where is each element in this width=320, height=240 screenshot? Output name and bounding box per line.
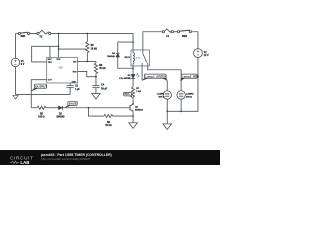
footer bar [0, 150, 220, 165]
wire: OUT pin to left [31, 80, 46, 108]
wire: RST branch horizontal [32, 46, 59, 62]
svg-text:1N4148: 1N4148 [56, 116, 65, 119]
node: emitter/pulldown junction [132, 115, 134, 117]
svg-text:12 V: 12 V [204, 54, 209, 57]
wire: lamp1 top [166, 81, 168, 91]
node: junction on VDD drop [58, 46, 60, 48]
wire: top rail middle segment [51, 32, 133, 34]
switch SW1 closed [18, 32, 29, 34]
svg-text:http://circuitlab.com/c/7aa8y4: http://circuitlab.com/c/7aa8y43b5f2f [41, 157, 90, 161]
wire: lamp1 bottom [166, 99, 168, 111]
wire: D2 to base [63, 107, 130, 109]
svg-text:100 Ω: 100 Ω [38, 117, 44, 119]
wire: second IC top pin drop [49, 46, 51, 57]
wire: DIS pin to R6/R8 junction [77, 60, 96, 62]
svg-text:LAMP1: LAMP1 [157, 93, 165, 96]
diode D4 flyback [116, 53, 120, 57]
node: junction on VDD drop 2 [58, 48, 60, 50]
wire: OUTPUT chain bottom [31, 107, 37, 109]
svg-text:100 Ω: 100 Ω [186, 97, 192, 99]
relay RLY1 [131, 50, 150, 66]
svg-text:50 µF: 50 µF [101, 88, 108, 90]
wire: rail between SW1 and F2 [30, 32, 37, 34]
wire: pulldown to emitter node [113, 115, 133, 117]
op-amp 555 timer IC U1 [47, 57, 78, 83]
node: lamp2 rail junction [180, 111, 182, 113]
ground: V1 ground small [13, 95, 18, 99]
wire: ground line horizontal [15, 93, 70, 95]
switch F2 [37, 30, 51, 34]
wire: emitter down [132, 111, 134, 122]
node: R6 bottom junction [87, 61, 89, 63]
svg-text:VDD: VDD [56, 59, 61, 61]
node: relay coil- / LED junction [132, 67, 134, 69]
resistor R6 [86, 33, 89, 61]
wire: coil- stub [132, 66, 134, 74]
ground: C4 ground [92, 93, 101, 99]
svg-text:GND: GND [72, 81, 77, 83]
resistor R9 pulldown [104, 114, 113, 117]
node: lamp1 rail junction [166, 111, 168, 113]
wire: V2 bottom down to lamp rail [167, 57, 198, 111]
svg-text:SW1: SW1 [20, 36, 26, 38]
wire: relay throw2 to lamp2 [148, 66, 181, 91]
svg-text:LTL-307EE: LTL-307EE [119, 78, 131, 80]
svg-text:10 kΩ: 10 kΩ [91, 48, 97, 50]
wire: lamp2 bottom [180, 99, 182, 111]
svg-text:1N4148: 1N4148 [107, 55, 115, 58]
wire: LED to R7 [132, 78, 134, 87]
transistor Q1 [130, 104, 133, 112]
resistor R8 [94, 61, 97, 85]
capacitor C4 [92, 86, 99, 93]
svg-text:1 µF: 1 µF [75, 89, 80, 91]
wire: V1 bottom to ground line [14, 67, 16, 95]
wire: relay throw1 down [141, 66, 143, 80]
svg-text:SW2: SW2 [182, 35, 188, 38]
svg-text:9 V: 9 V [21, 63, 25, 66]
footer logo LAB [10, 161, 20, 163]
ground: lamp ground [163, 124, 172, 130]
svg-text:Lamp1_GREEN: Lamp1_GREEN [145, 75, 166, 79]
wire: pulldown branch [88, 108, 103, 116]
voltage source V1 [11, 58, 19, 66]
wire: branch to R6 body [59, 48, 87, 50]
wire: flyback top [118, 41, 133, 43]
flag: base net flag [65, 101, 77, 107]
svg-text:OUTPUT: OUTPUT [35, 84, 47, 88]
svg-text:10 kΩ: 10 kΩ [99, 68, 105, 70]
svg-text:2N3904: 2N3904 [135, 108, 143, 111]
svg-text:Lamp2_RED: Lamp2_RED [182, 75, 199, 79]
wire: flyback left vertical top [117, 42, 119, 53]
wire: IC VDD pin drop from rail [58, 33, 60, 57]
svg-text:10 kΩ: 10 kΩ [105, 125, 111, 127]
node: rail junction to R6 [87, 33, 89, 35]
wire: V1 top rail vertical [14, 33, 16, 58]
wire: lamp rail ground drop [166, 111, 168, 123]
svg-text:REL: REL [125, 92, 131, 96]
svg-text:TRG: TRG [48, 62, 53, 64]
wire: THR pin jog [77, 71, 96, 76]
lamp LAMP1 [163, 91, 171, 99]
flag: OUTPUT net flag [31, 84, 47, 91]
flag: collector net flag [124, 92, 133, 98]
svg-text:1 kΩ: 1 kΩ [136, 91, 141, 93]
wire: R5 to D2 [46, 107, 58, 109]
voltage source V2 [194, 49, 203, 58]
switch SW2 closed [177, 30, 191, 33]
node: rail junction to IC pins [58, 33, 60, 35]
wire: rail corner down to relay coil [132, 33, 134, 50]
capacitor C2 [67, 86, 74, 95]
wire: relay common up and right line [143, 32, 162, 50]
svg-text:LAMP2: LAMP2 [186, 93, 194, 96]
resistor R7 [131, 87, 134, 97]
node: collector junction [132, 103, 134, 105]
wire: R7 to collector [132, 97, 134, 104]
flag: Lamp2_RED [180, 74, 199, 81]
svg-text:jasmil43 : Part 1/555 TIMER (C: jasmil43 : Part 1/555 TIMER (CONTROLLER) [40, 153, 112, 157]
ground: emitter ground [129, 123, 138, 129]
LED D1 [131, 74, 139, 79]
resistor R5 [37, 106, 46, 109]
svg-text:THR: THR [72, 71, 77, 73]
wire: F1 to SW2 [174, 31, 178, 33]
wire: SW2 to V2 [191, 32, 198, 49]
svg-text:555: 555 [58, 66, 63, 70]
svg-text:100 Ω: 100 Ω [158, 97, 164, 99]
svg-text:LAB: LAB [20, 160, 29, 165]
svg-text:BASE: BASE [69, 102, 77, 106]
node: THR junction on R8-C4 wire [95, 76, 97, 78]
node: base/pulldown junction [88, 107, 90, 109]
wire: top rail left segment to SW1 [15, 32, 18, 34]
node: flyback top junction [132, 41, 134, 43]
diode D2 [58, 106, 62, 110]
flag: Lamp1_GREEN [142, 74, 167, 81]
wire: flyback bottom [118, 57, 133, 68]
svg-text:RLY1: RLY1 [125, 57, 131, 59]
switch F1 [162, 29, 173, 33]
wire: GND pin to C2 [69, 83, 71, 86]
lamp LAMP2 [177, 91, 185, 99]
